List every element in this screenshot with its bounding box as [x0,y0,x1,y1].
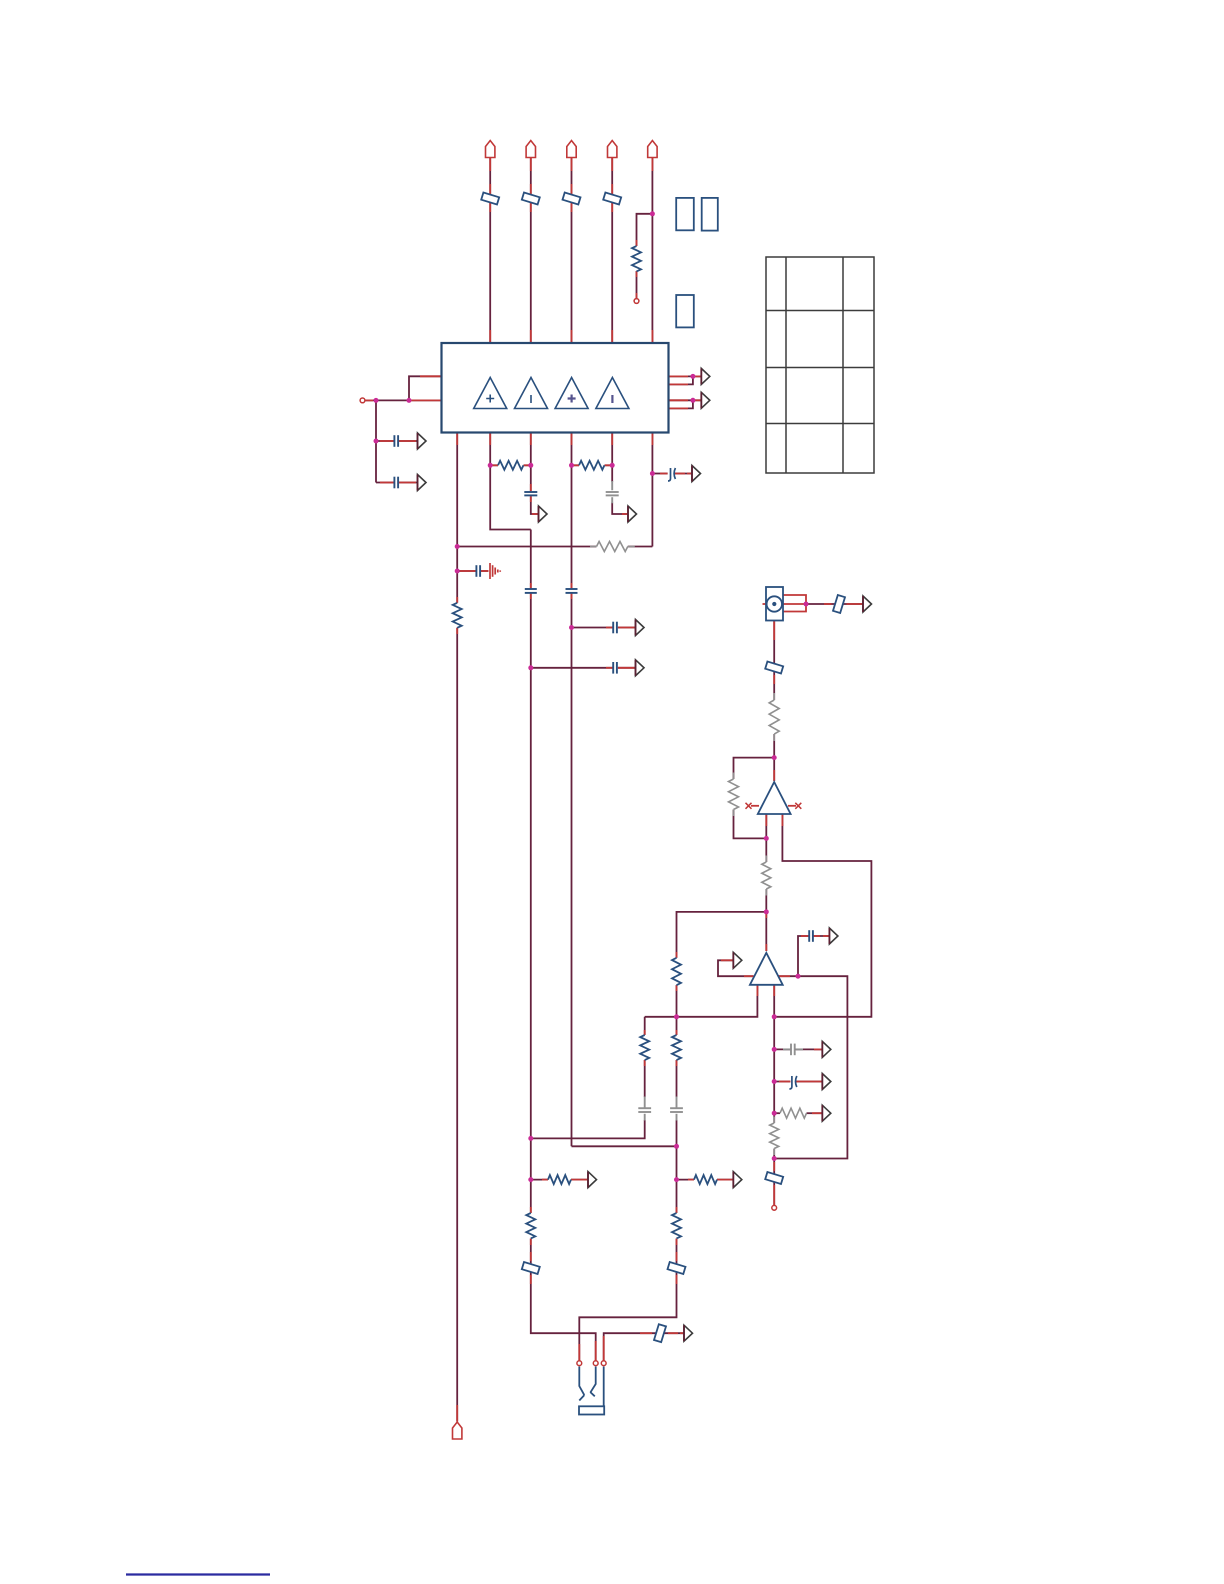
stubs: C6 ground row [460,570,476,572]
port arrow at C13 [822,1074,831,1090]
port arrow at C5 [692,466,701,482]
ferrite bead FB6 [668,1262,686,1274]
spare part box A [676,198,694,230]
junction: U3 top node [764,909,769,914]
wire: R5 to node [773,734,775,758]
resistor R7 (gray) [765,856,767,896]
junction: C10 branch [528,665,533,670]
power ground symbol (red, rotated) [490,563,500,579]
wire: R7 to node [765,889,767,912]
junction: C9 branch [569,625,574,630]
junction: U1 left jog [407,398,412,403]
ferrite bead FB1 [833,595,845,613]
wire: col5 down to bus corner [651,433,653,547]
wire: col2 bottom below R13 to jack [531,1239,596,1361]
resistor R8 [672,958,681,985]
wire: header pin 1 column to U1 [489,158,491,344]
wire: U2 right pin long loop [774,814,871,1017]
open terminal input left [360,398,365,403]
op-amp U2 [758,782,791,814]
wire: node to U2 apex [773,758,775,781]
resistor R3 [579,461,604,470]
junction: R9 branch [528,1177,533,1182]
wire: C1 row [376,440,394,442]
junction: U1 right pair 1 [690,374,695,379]
junction: R2 left [488,463,493,468]
junction: U2 top node [772,755,777,760]
wire: C6 to ground row [457,570,475,572]
wire: C5 branch on col5 [652,473,667,475]
wire: col2 long rail [530,530,532,589]
junction: bus R8 [674,1014,679,1019]
BNC connector J1 [766,587,783,621]
wire: U2 output pin down [765,814,767,862]
resistor R5 (gray) [773,693,775,741]
wire: R11 row [774,1112,780,1114]
resistor R1 [632,246,641,271]
capacitor C3 [524,492,537,495]
resistor R17 mid chain [672,1035,681,1060]
junction: input branch [374,398,379,403]
ferrite bead FB5 [522,1262,540,1274]
junction: col2 link [528,1136,533,1141]
wire: header pin 4 column to U1 [611,158,613,344]
table: revision block top right [766,257,874,473]
junction: R3 right [610,463,615,468]
wire: node left to R8 [677,912,767,958]
stubs: ferrite bead leads row [489,184,491,212]
wire: R3 row between col3 col4 [572,464,580,466]
junction: BNC pins [804,602,809,607]
stubs: U2 bottom pins [765,814,767,826]
junction: R3 left [569,463,574,468]
junction: col3 link [674,1144,679,1149]
wire: chain rail col 774 [773,1017,775,1123]
wire: C9 row from col3 [572,627,613,629]
capacitor C8 [566,589,578,593]
jack J2 open terminal 1 [577,1361,582,1366]
capacitor C15 (gray) [670,1097,683,1121]
junction: R10 branch [674,1177,679,1182]
stubs: R11 row [812,1112,822,1114]
wire: left chain col 644 [644,1017,646,1035]
jack J2 open terminal 3 [601,1361,606,1366]
U1 amp C triangle [555,378,588,409]
resistor R14 [672,1213,681,1238]
wire: col676 bottom below R14 to jack [579,1239,676,1361]
ferrite bead FB9 [563,193,581,205]
junction: R11 branch [772,1111,777,1116]
wire: mid chain col 676 [676,1017,678,1035]
junction: C12 branch [772,1047,777,1052]
port arrow at C11 [829,928,838,944]
resistor R10 [694,1175,717,1184]
capacitor C14 (gray) [638,1097,651,1121]
stubs: U1 right pins [669,375,689,377]
wire: col4 upper segment to C4 [611,433,613,483]
junction: chain top [772,1014,777,1019]
polarized capacitor C13 [789,1076,796,1089]
connector pin P1 [486,141,495,158]
wire: C3 to port jog [531,496,539,514]
junction: C6 branch [455,569,460,574]
resistor R2 [498,461,523,470]
ferrite bead FB4 [654,1324,666,1342]
junction: R2 right [528,463,533,468]
wire: C10 row from col2 [531,667,613,669]
stubs: C3 C4 leads and port entries [530,484,532,491]
stubs: U1 left pins [420,375,442,377]
U1 amp A triangle [474,378,507,409]
wire: col3 long rail [571,593,573,1146]
stubs: FB1 leads [824,603,832,605]
stubs: chain resistor caps leads left [644,1030,646,1035]
stubs: BNC J1 pin loop [783,595,806,612]
port arrow U1 right lower [701,392,710,408]
ferrite bead FB8 [522,193,540,205]
wire: R1 to open terminal [636,271,638,299]
capacitor C6 [476,565,480,577]
resistor R9 [548,1175,571,1184]
wire: U1 right pin pair 2 [669,400,693,408]
wire: U1 bottom pin A down long rail [456,433,458,603]
open terminal below FB3 [772,1205,777,1210]
junction: bus left corner [455,544,460,549]
capacitor C2 [394,477,398,489]
port arrow at C9 [636,620,645,636]
jack J2 body [579,1367,604,1415]
stubs: C13 row [779,1081,790,1083]
wire: branch from pin5 node to R1 [637,214,653,246]
connector pin P4 [608,141,617,158]
stubs: U2 side pins [751,805,759,807]
stubs: C12 row [814,1048,822,1050]
wire: node up to C11 [798,936,809,976]
stubs: U3 apex wire [765,912,767,918]
port arrow at R11 [822,1105,831,1121]
stubs: R8 leads [676,952,678,958]
junction: U2 output node [764,836,769,841]
title block underline (blue) [126,1573,270,1575]
port arrow at FB4 [684,1325,693,1341]
stubs: U1 bottom pins [456,433,458,446]
wire: C2 row [376,482,394,484]
stubs: U3 bottom pins [756,985,758,996]
U1 amp D triangle [596,378,629,409]
junction: C5 branch [650,471,655,476]
junction: C1 branch [374,439,379,444]
capacitor C1 [394,435,398,447]
stubs: U3 input loop [721,959,733,961]
stubs: jack J2 pins [578,1344,580,1361]
wire: C4 to port jog [612,503,628,515]
junction: pin5 branch [650,211,655,216]
ferrite bead FB2 [765,662,783,674]
wire: U3 inverting input loop to port [718,960,754,976]
wire: BNC down through FB2 to R5 [773,621,775,701]
port arrow at C2 [418,475,427,491]
wire: U3 bottom right pin [773,985,775,1017]
spare part box C [676,295,694,327]
resistor R16 left chain [640,1035,649,1060]
wire: R9 port row left [531,1179,548,1181]
U1 amp B triangle [515,378,548,409]
capacitor C10 [613,662,617,674]
port arrow at C1 [418,433,427,449]
junction: U3 output node [796,974,801,979]
wire: U3 bottom left pin to bus [645,985,758,1017]
stub: bottom pin [456,1405,458,1422]
stubs: R15 leads [456,597,458,603]
no-connect X right of U2 [795,803,801,809]
stubs: C1 C2 rows [380,440,394,442]
stub: open terminal left [365,399,373,401]
port arrow after FB1 [863,596,872,612]
resistor R6 (gray) feedback [733,773,735,817]
wire: U3 output to node [778,975,798,977]
capacitor C9 [613,622,617,634]
wire: C13 row [774,1081,790,1083]
resistor R13 [526,1213,535,1238]
wire: BNC J1 signal to FB1 to port [806,603,863,605]
wire: header pin 5 column to U1 [651,158,653,344]
wire: R8 to bus [676,985,678,1017]
wire: node to U3 apex [765,912,767,951]
wire: output loop right and down [774,976,847,1158]
resistor R4 (gray) on bus [590,546,635,548]
wire: col3 bottom jog to node [572,1145,677,1147]
polarized capacitor C5 [668,468,675,481]
junction: chain bottom [772,1156,777,1161]
stubs: C5 polarized leads [660,473,668,475]
capacitor C7 [525,589,537,593]
port arrow at R10 [733,1172,742,1188]
resistor R12 (gray) [773,1117,775,1156]
wire: chain to FB3 and terminal [773,1159,775,1206]
ferrite bead FB3 [765,1172,783,1184]
wire: col3 upper segment [571,433,573,589]
stub: U2 apex [773,770,775,781]
stubs: R9 R10 rows [542,1179,548,1181]
wire: header pin 3 column to U1 [571,158,573,344]
stubs: C11 leads [801,935,809,937]
wire: horizontal bus with R4 [628,546,653,548]
stubs: C7 C8 leads [530,583,532,589]
wire: feedback loop with R6 [734,758,775,779]
op-amp array U1 [442,343,669,433]
stubs: R13 R14 leads [530,1207,532,1213]
open terminal of R1 [634,299,639,304]
wire: header pin 2 column to U1 [530,158,532,344]
wire: U1 right pin pair 1 [669,376,693,384]
wire: chain rail below R12 [773,1149,775,1159]
stubs: FB4 leads [640,1332,652,1334]
capacitor C4 (gray) [606,481,619,503]
resistor R15 [453,603,462,628]
port arrow at U3 inverting input [733,952,742,968]
wire: R2 row between col1 col2 [490,464,498,466]
wire: R10 port row right [677,1179,695,1181]
wire: C12 row [774,1048,790,1050]
port arrow at C12 [822,1041,831,1057]
wire: U1 left pin upper jog [409,376,442,400]
stubs: R1 leads and open terminal [636,240,638,246]
stubs: R2 R3 leads [490,464,498,466]
wire: input net from open terminal to U1 left lower pin [365,399,442,401]
capacitor C11 [809,930,813,942]
connector pin P2 [526,141,535,158]
port arrow at R9 [588,1172,597,1188]
stubs: BNC down FB2 leads [773,621,775,641]
port arrow at C10 [636,660,645,676]
ferrite bead FB10 [603,193,621,205]
port arrow below C4 [628,506,637,522]
wire: col2 upper segment to C3 [530,433,532,492]
port arrow below C3 [539,506,548,522]
wire: U1 bottom pin B with jog to column 2 [490,433,531,530]
stubs: C9 C10 rows [606,627,613,629]
stubs: FB5 FB6 leads [530,1252,532,1261]
wire: jack pin3 to FB4 to port [604,1333,684,1361]
jack J2 open terminal 2 [593,1361,598,1366]
stubs: below header pins [489,158,491,172]
no-connect X left of U2 [746,803,752,809]
spare part box B [702,198,718,231]
capacitor C12 (gray) [783,1044,803,1056]
op-amp U3 [750,953,783,985]
port arrow U1 right upper [701,368,710,384]
connector pin P5 [648,141,657,158]
junction: C13 branch [772,1079,777,1084]
junction: U1 right pair 2 [690,398,695,403]
resistor R11 (gray) [780,1108,806,1118]
stubs: U1 top pins [489,330,491,343]
ferrite bead FB7 [481,193,499,205]
connector pin P3 [567,141,576,158]
bottom connector pin P6 [453,1422,462,1439]
stub: U3 output [778,975,790,977]
wire: branch down to decoupling caps C1 C2 [375,400,377,482]
stubs: FB3 and terminal [773,1162,775,1171]
